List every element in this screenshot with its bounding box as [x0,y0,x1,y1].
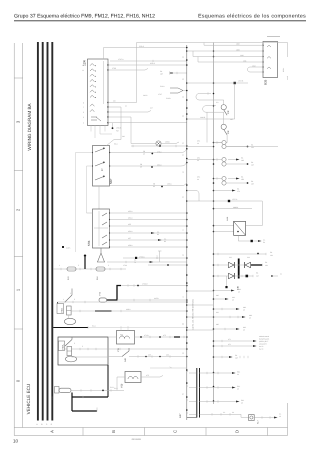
wire y300 to bus [117,299,187,301]
row y201 square [228,200,230,202]
ground box S17 [249,415,255,421]
relay RE02 blade [65,289,72,303]
valve Y31 coil marks [120,336,130,338]
bottom band top line [14,427,287,429]
row y241 label [263,239,266,245]
connector 124 pin contacts [90,63,96,97]
diode D2 [245,262,251,267]
valve Y50 labels [110,374,149,389]
switch 57B right pins [109,212,110,247]
switch S40 row ticks [138,355,170,357]
hairpin A [196,94,224,105]
svg-text:2: 2 [108,264,109,267]
merge labels [158,85,171,100]
bus A junction dots [186,47,188,411]
fuse F64 body [96,267,105,271]
A17 row y412 ticks [212,413,230,415]
lamp pair 1 lower wire [226,146,246,148]
relay RE02 out thick seg [95,310,112,312]
harness cable bar 2 [42,42,44,421]
row166 label pair [140,163,143,169]
stub row y73 [173,72,187,74]
relay RE08 bottom thick [107,365,109,397]
ground bracket ticks [83,396,97,412]
hairpin B [203,106,224,125]
wire 56P row166 [110,163,187,167]
svg-text:1766-D: 1766-D [142,283,148,286]
svg-text:457: 457 [128,237,131,240]
bottom band tick 4 [267,428,269,436]
bottom band right edge [287,403,289,436]
diode area labels [229,256,282,278]
switch box 56P body [93,146,110,187]
label cluster mid top [113,94,153,110]
svg-text:11: 11 [82,69,84,72]
svg-text:10: 10 [13,439,19,444]
valve Y31 row dots [140,336,161,338]
left band tick 3 [14,256,23,258]
A17 row y401.5 wire [199,401,236,403]
row185 dot [161,186,163,188]
relay K1 left wires [214,226,234,232]
row y241 square [251,240,253,242]
row254 ticks [218,253,266,255]
switch 33F contact [221,105,226,110]
svg-text:Y31: Y31 [120,334,123,337]
component 20B row wire [71,389,124,391]
relay RE08 box [58,337,108,365]
relay RE02 row wire [58,301,187,303]
switch box 57B body [93,209,110,248]
valve Y31 body [117,331,135,345]
power stub dot [84,255,86,257]
wire 57B row y226 [110,225,187,227]
lamp pair 3 upper wire [214,178,222,180]
svg-text:135-C: 135-C [167,183,172,186]
relay RE08 row ticks [80,348,120,350]
relay RE08 pin labels [63,342,83,348]
lamp pair 1 lower dot [247,146,249,148]
wire 57B row y219.5 [110,219,187,221]
lamp symbol LC1 [156,141,161,146]
dense label block [259,335,270,351]
wire 124 pin12 to bus [108,64,187,66]
connector 124 lower detail [91,117,101,121]
wire y285 to bus [121,285,187,287]
A17 row y401.5 label [241,399,245,405]
diode junction bar [238,259,240,279]
relay RE08 coil [67,347,72,356]
svg-text:33F: 33F [227,110,230,114]
stub row y357 [214,356,230,358]
relay RE08 name box [59,341,65,351]
junction dot [112,127,114,129]
svg-text:1: 1 [59,264,60,267]
row y208 wire [214,208,253,210]
svg-text:5: 5 [74,298,75,301]
relay RE08 pill [65,356,76,362]
relay RE08 row wire [58,348,187,350]
valve Y31 dash mark [174,336,180,338]
left band tick 4 [14,328,23,330]
wire A17 to S17 [254,417,274,419]
stub pair y341 [214,340,254,342]
switch 56P pins [92,152,93,153]
wire row y185 [110,183,187,186]
label cluster F-codes [116,127,125,139]
svg-text:8: 8 [83,102,84,105]
svg-text:57B: 57B [87,241,91,246]
wire 124 pin8 long top [108,43,204,103]
component 20B row ticks [81,389,111,391]
wire y285 dot [137,285,139,287]
svg-text:2: 2 [70,292,71,295]
diode row ticks [218,264,263,277]
svg-text:1767-A: 1767-A [118,58,124,61]
ground row y262 [107,261,187,263]
thick elbow wire [107,286,121,301]
row152 label pair [143,150,146,156]
A17 left stub labels [187,370,188,414]
svg-text:Grupo 37 Esquema eléctrico FM9: Grupo 37 Esquema eléctrico FM9, FM12, FH… [14,14,155,20]
svg-text:473: 473 [146,374,149,377]
relay RE08 out wire [72,356,108,358]
row y146 dot [159,145,161,147]
wire 57B row y233 [110,232,187,234]
svg-text:416-A: 416-A [150,62,156,65]
relay RE02 coil [67,306,72,315]
svg-text:A17: A17 [179,413,182,418]
bus line x213 [213,43,215,405]
hairpin A tick [207,92,209,94]
row152 dot [151,153,153,155]
wire B35 row51 [187,50,263,52]
lamp pair 2 lower dot [247,163,249,165]
svg-text:1766: 1766 [123,264,127,267]
valve Y31 row ticks [150,336,184,338]
connector 124 inner wall [103,61,105,104]
relay RE02 pin labels [63,292,75,301]
wire row y61 [110,60,187,62]
switch 56P arrowheads [103,148,105,178]
svg-text:Conex. uni. HECU (Vehicle ECU): Conex. uni. HECU (Vehicle ECU) [192,299,195,330]
A17 row y387.5 wire [199,387,232,389]
stub row y329 [214,328,237,330]
svg-text:2: 2 [78,264,79,267]
relay RE02 name box [57,304,64,314]
connector 124 pin numbers [82,64,84,125]
diode D3 [229,273,235,278]
label bottom right [279,413,282,419]
wire B35 row56 [193,51,263,57]
bottom band tick 3 [205,428,207,436]
svg-text:3: 3 [83,116,84,119]
A17 row y373 ticks [207,372,218,374]
A17 row y412 wire [200,414,249,417]
bus A side rotated labels [182,56,185,395]
switch 57B divider [98,211,100,246]
bus B junction dots [213,50,215,402]
57B row arrow a [151,232,155,234]
lamp pair 2 arrow [228,159,236,161]
relay RE02 coil out wire [71,310,187,312]
svg-text:12: 12 [82,64,84,67]
header rule [14,20,306,22]
wire 124 pin11 [108,69,148,71]
row y241 out [253,240,258,242]
wire y119 [187,118,235,120]
stub pair labels [228,338,231,346]
wire 124 pin7 [108,107,121,140]
stub pair y346 [214,345,254,347]
bottom band tick 2 [144,428,146,436]
relay RE02 coil stub [68,315,70,318]
wire lamp to bus [161,142,179,144]
connector B35 contacts [267,45,271,69]
B35 wire labels [236,43,256,68]
row y201 wire [187,200,262,202]
relay RE02 pill [64,318,75,324]
svg-text:B: B [111,430,116,433]
ground wire tick [87,326,89,328]
lamp pair 2 upper wire [214,159,222,161]
A17 row y412 label [223,411,235,414]
diode row2 square [246,275,249,278]
stub row y317 [214,316,243,318]
stub row y357 label [235,354,239,360]
wire rows bus link [187,147,214,160]
junction square y83 [234,82,236,84]
lamp pair 1 circles [222,140,226,144]
A17 row y373 wire [199,372,232,374]
wire below 124 a [91,126,112,139]
connector B35 body [263,42,278,78]
lamp pair 1 lower label [251,144,255,150]
diode drop square [225,286,227,288]
wire top rail [204,43,288,58]
svg-text:1: 1 [63,343,64,346]
switch 56P blade 1 [95,148,105,180]
lamp pair 3 lower label [251,180,255,186]
wire 56P top diag [106,140,121,147]
relay RE02 out ticks [80,310,121,312]
A17 row y401.5 ticks [207,400,218,402]
switch 57B contacts [102,213,107,245]
relay K1 box [234,221,246,235]
diode drop wire [226,276,228,286]
svg-text:1: 1 [101,168,103,172]
svg-text:455: 455 [128,223,131,226]
connector 124 right pins [107,64,108,123]
wire 57B row y213 [110,212,187,214]
merge symbol [170,88,183,93]
relay RE08 blade [65,337,72,346]
stub row y290 label [238,288,242,294]
svg-text:466: 466 [166,354,169,357]
lamp pair 3 circles [222,176,226,180]
connector B35 left pins [262,45,263,73]
power stub thick [84,257,86,269]
lamp pair 3 arrow [228,178,236,180]
lamp pair 1 long wire [226,146,278,148]
stub row y190 [214,190,233,192]
svg-text:3: 3 [82,345,83,348]
left band tick 2 [14,170,23,172]
row166 dot [151,166,153,168]
row254 label [270,251,274,257]
stub row y309 [214,308,237,310]
fuse F32 pill body [99,298,107,302]
ground wire light [88,327,187,329]
stub row y317 label [249,314,253,320]
wire B35 row45 [204,43,263,46]
switch S40 row wire [108,356,187,358]
valve Y31 top stubs [121,326,128,331]
harness cable bar 3 [47,42,49,421]
bottom band bottom line [14,435,287,437]
wire 57B row y240 [110,239,187,241]
ground row vertical [158,251,161,262]
lamp pair 2 lower label [251,161,255,167]
A17 left stubs [189,373,197,414]
svg-text:Esquemas eléctricos de los com: Esquemas eléctricos de los componentes [198,14,306,20]
svg-text:1767: 1767 [158,93,162,96]
relay RE02 row ticks [65,301,85,303]
wire merge to bus [183,90,187,92]
wire y254 [214,253,267,255]
ground bracket thick [72,393,108,412]
switch S40 blade [122,348,129,357]
right edge rotated labels [282,68,289,80]
harness cable bar 4 [51,42,53,421]
diode D1 [229,262,235,267]
wire 124 top to bus [104,48,187,60]
wire 124 pin3 [108,117,131,144]
wire y83 [187,82,248,84]
ground wire thick [53,327,88,329]
component 20B row dot [102,390,104,392]
valve Y31 row wire [108,336,187,338]
wire y190 arc [187,191,199,202]
wire rows above Y50 [150,367,187,368]
lamp pair 3 lower dot [247,182,249,184]
wire B35 hairpin rows67-72 [248,67,264,72]
stub row y73 label [160,70,164,76]
svg-text:WIRING DIAGRAM BA: WIRING DIAGRAM BA [27,102,32,150]
svg-text:1766-C: 1766-C [139,256,145,259]
wire B35 row62 [198,57,263,63]
vertical from junction [234,84,236,119]
header small mark [267,36,280,38]
relay K1 drop [238,235,250,241]
lamp pair left labels [197,140,201,182]
diode wires [214,265,254,276]
diode row2 dot [271,275,273,277]
connector 124 body [88,59,109,126]
stub row y329 label [243,326,247,332]
svg-text:Y50: Y50 [121,383,124,388]
labels right of switches [216,101,233,121]
stub row y299 [214,298,226,300]
svg-text:2: 2 [83,122,84,125]
svg-text:5: 5 [83,111,84,114]
svg-text:30F: 30F [227,130,230,134]
svg-text:A: A [50,430,55,433]
fuse row ticks [61,268,121,270]
row y265 wire [148,264,187,266]
valve Y50 body [125,372,141,383]
lamp pair 2 circles [222,157,226,161]
relay K1 loop [246,201,263,226]
57B row arrow b [158,239,162,241]
svg-text:RE02: RE02 [61,308,64,313]
connector 124 lower contacts [90,104,94,112]
row254 dot [257,253,259,255]
A17 row y373 label [237,371,241,377]
relay RE02 left drop [57,302,59,314]
diode row1 thick out [251,264,262,266]
valve Y50 wires [117,376,163,391]
component 20B name box [55,387,60,394]
A17 row y387.5 label [237,385,241,391]
A17 row y387.5 ticks [207,386,218,388]
frame left outer line [13,43,15,436]
mid bus cross wires [187,291,214,330]
component 20B pill [59,388,71,392]
valve Y31 row labels [144,334,166,337]
relay K1 inner dot [237,231,239,233]
diode row2 end wire [272,275,278,277]
row y265 dot [167,264,169,266]
svg-text:56P: 56P [109,179,113,184]
svg-text:J3014808: J3014808 [131,438,141,441]
svg-text:VEHICLE ECU: VEHICLE ECU [26,384,31,415]
wire 57B left in [87,212,93,214]
wire 124 pin2 row [108,122,187,124]
svg-text:1766: 1766 [112,67,116,70]
row y258 sq [135,257,137,259]
stub row y309 label [243,306,247,312]
switch 30F contact [221,124,226,129]
wire y300 ticks [134,299,150,301]
svg-text:465: 465 [148,354,151,357]
labels S40 row [148,354,169,357]
switch 30F drop [226,135,227,143]
svg-text:D: D [235,430,240,433]
row y258 wire [123,257,187,259]
lamp pair 1 upper wire [214,142,222,144]
ground row y262 labels [134,259,137,265]
wire row141 [214,142,222,144]
svg-text:B35: B35 [264,79,268,85]
wire 124 pin5 [108,111,151,113]
row y146 ticks [133,145,176,147]
hairpinB drop [206,112,208,142]
ground triangle below 57B [97,248,105,262]
ECU connector A17 bar [197,368,200,418]
wire row y146 [131,145,187,147]
stub row y299 label [232,296,236,302]
wire 56P bottom drop [98,186,100,209]
wire 56P row152 [110,149,187,153]
wire 57B row y247 [110,246,187,248]
wire lamp feed [113,123,156,144]
lamp pair 2 lower wire [226,163,246,165]
fuse row labels [59,264,127,267]
bus line x187 [186,45,188,420]
wire y285 ticks [128,284,134,286]
svg-text:7: 7 [83,106,84,109]
